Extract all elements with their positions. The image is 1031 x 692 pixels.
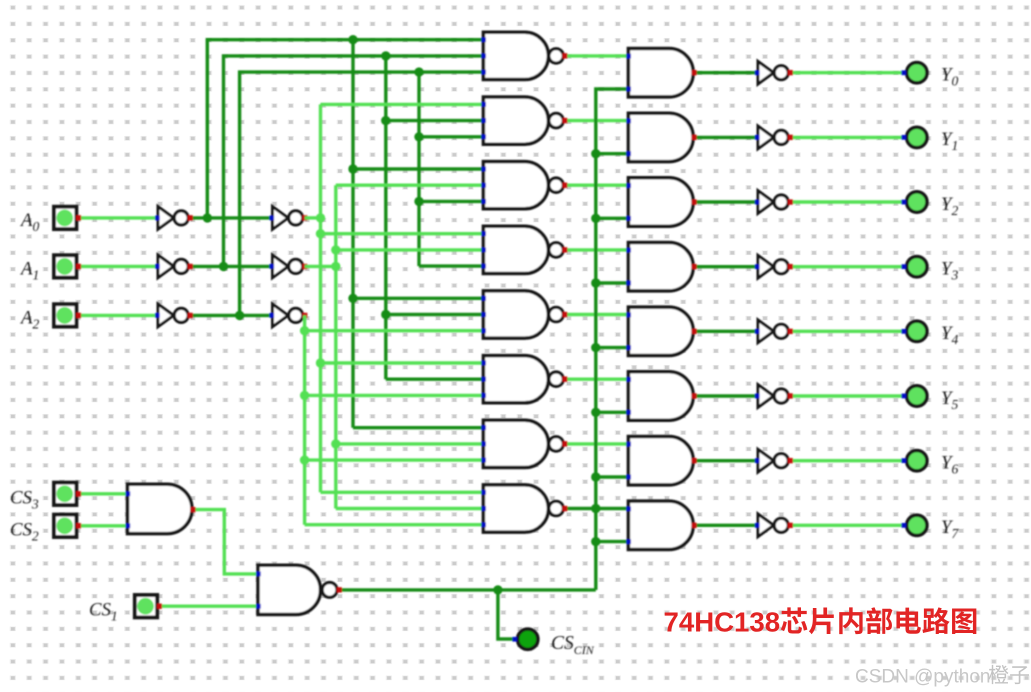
wire /A0 to NAND3 input1	[353, 167, 483, 170]
wire AND2 out to inverter	[694, 136, 758, 139]
wire inverter out to pin Y7	[790, 524, 903, 527]
wire enable to AND4 input2	[596, 281, 629, 284]
output pin Y3	[901, 257, 927, 277]
wire AND4 out to inverter	[694, 265, 758, 268]
wire /A0 inverter1 to inverter2	[190, 216, 272, 219]
wire A1 pin to inverter	[79, 265, 158, 268]
wire enable vertical	[596, 89, 629, 590]
wire enable NAND out	[339, 588, 596, 591]
wire /A2 to NAND2 input3	[419, 135, 483, 138]
wire /A2 to NAND3 input3	[419, 200, 483, 203]
junction enable AND2	[591, 149, 600, 158]
inverter U5 (A1)	[269, 255, 307, 278]
wire inverter out to pin Y6	[790, 459, 903, 462]
junction A0 NAND4	[316, 229, 325, 238]
output pin Y6	[901, 451, 927, 471]
junction /A1 NAND2	[381, 116, 390, 125]
wire enable to AND8 input2	[596, 540, 629, 543]
output pin Y7	[901, 515, 927, 535]
output pin Y4	[901, 321, 927, 341]
junction /A0 NAND5	[348, 294, 357, 303]
wire enable to AND6 input2	[596, 411, 629, 414]
NAND gate G8	[481, 485, 563, 532]
wire A2 to NAND6 input3	[305, 394, 484, 397]
wire net A0 vertical	[319, 104, 322, 492]
watermark	[855, 665, 1029, 688]
junction A2 NAND7	[300, 455, 309, 464]
junction A1 NAND7	[331, 439, 340, 448]
input pin A0	[54, 207, 81, 229]
wire net A2 vertical	[303, 315, 306, 524]
wire CS1 to enable NAND	[159, 605, 257, 608]
wire NAND6 out to AND6	[565, 378, 629, 381]
wire AND6 out to inverter	[694, 394, 758, 397]
input pin CS2	[54, 515, 81, 537]
inverter U12 (Y5)	[755, 385, 793, 408]
junction /A0 drop	[348, 35, 357, 44]
wire /A0 to NAND5 input1	[353, 297, 483, 300]
inverter U1 (A0)	[155, 207, 193, 230]
NAND gate G4	[481, 226, 563, 273]
wire A0 to NAND4 input1	[321, 232, 484, 235]
AND gate G11	[626, 178, 693, 226]
junction enable AND8	[591, 537, 600, 546]
input pin CS1	[135, 595, 162, 617]
wire AND3 out to inverter	[694, 200, 758, 203]
AND gate E1 (CS3 CS2)	[126, 484, 192, 533]
wire enable to AND5 input2	[596, 346, 629, 349]
wire /A0 to NAND7 input1	[353, 426, 483, 429]
wire /A1 to NAND6 input2	[386, 378, 484, 381]
junction enable NAND8 row	[591, 504, 600, 513]
wire AND7 out to inverter	[694, 459, 758, 462]
svg-text:74HC138: 74HC138	[664, 607, 781, 638]
junction CS_CIN tap	[493, 585, 502, 594]
junction enable AND6	[591, 408, 600, 417]
wire NAND4 out to AND4	[565, 248, 629, 251]
junction enable AND7	[591, 472, 600, 481]
output pin CS_CIN	[512, 629, 538, 649]
NAND gate G6	[481, 356, 563, 403]
output pin Y0	[901, 62, 927, 82]
NAND gate E2 (enable)	[256, 565, 337, 614]
junction enable AND4	[591, 278, 600, 287]
NAND gate G5	[481, 291, 563, 338]
junction /A2 NAND2	[414, 132, 423, 141]
wire inverter out to pin Y0	[790, 71, 903, 74]
wire NAND2 out to AND2	[565, 119, 629, 122]
wire A1 to NAND7 input2	[336, 442, 484, 445]
AND gate G12	[626, 243, 693, 291]
wire net /A1 top route	[224, 56, 484, 267]
wire NAND7 out to AND7	[565, 442, 629, 445]
output pin Y1	[901, 127, 927, 147]
wire inverter out to pin Y5	[790, 394, 903, 397]
svg-text:CSDN @python: CSDN @python	[855, 667, 990, 688]
wire AND5 out to inverter	[694, 330, 758, 333]
wire A1 buffered out	[305, 265, 336, 268]
inverter U6 (A2)	[269, 304, 307, 327]
junction /A2 tap	[235, 311, 244, 320]
wire inverter out to pin Y3	[790, 265, 903, 268]
inverter U13 (Y6)	[755, 449, 793, 472]
wire A0 to NAND2 input1	[321, 103, 484, 106]
wire NAND5 out to AND5	[565, 313, 629, 316]
inverter U7 (Y0)	[755, 61, 793, 84]
wire net /A0 top route	[207, 40, 483, 218]
input pin CS3	[54, 483, 81, 505]
wire A0 pin to inverter	[79, 216, 158, 219]
wire net /A1 drop vertical	[384, 56, 387, 379]
NAND gate G7	[481, 420, 563, 467]
wire net /A2 drop vertical	[417, 72, 420, 266]
wire inverter out to pin Y4	[790, 330, 903, 333]
AND gate G14	[626, 372, 693, 420]
wire NAND3 out to AND3	[565, 183, 629, 186]
wire CS3 to AND	[79, 492, 128, 495]
junction /A1 tap	[219, 262, 228, 271]
AND gate G15	[626, 437, 693, 485]
junction /A2 NAND3	[414, 197, 423, 206]
wire NAND1 out to AND1	[565, 54, 629, 57]
wire CS-AND out to enable NAND	[193, 510, 257, 574]
wire /A1 to NAND2 input2	[386, 119, 484, 122]
wire inverter out to pin Y1	[790, 136, 903, 139]
wire A1 to NAND3 input2	[336, 183, 484, 186]
wire AND8 out to inverter	[694, 524, 758, 527]
inverter U10 (Y3)	[755, 255, 793, 278]
wire A2 to NAND8 input3	[305, 523, 484, 526]
wire A2 pin to inverter	[79, 314, 158, 317]
junction A0 NAND6	[316, 358, 325, 367]
NAND gate G3	[481, 162, 563, 209]
wire net /A2 top route	[240, 72, 484, 315]
wire inverter out to pin Y2	[790, 200, 903, 203]
inverter U8 (Y1)	[755, 126, 793, 149]
junction A1 tap	[331, 262, 340, 271]
inverter U11 (Y4)	[755, 320, 793, 343]
input pin A2	[54, 304, 81, 326]
output pin Y5	[901, 386, 927, 406]
AND gate G13	[626, 307, 693, 355]
wire A0 to NAND6 input1	[321, 361, 484, 364]
wire enable to AND3 input2	[596, 217, 629, 220]
wire enable to AND2 input2	[596, 152, 629, 155]
wire NAND8 out to AND8	[565, 507, 629, 510]
wire enable to AND7 input2	[596, 475, 629, 478]
wire A0 buffered out	[305, 216, 321, 219]
inverter U3 (A2)	[155, 304, 193, 327]
inverter U4 (A0)	[269, 207, 307, 230]
input pin A1	[54, 255, 81, 277]
junction A1 NAND4	[331, 245, 340, 254]
title text 74HC138 internal circuit	[664, 607, 977, 638]
wire to CS_CIN pin	[498, 590, 513, 639]
wire A0 to NAND8 input1	[321, 491, 484, 494]
junction /A2 drop	[414, 67, 423, 76]
wire CS2 to AND	[79, 524, 128, 527]
junction A2 NAND6	[300, 391, 309, 400]
wire net /A0 drop vertical	[351, 40, 354, 428]
AND gate G10	[626, 113, 693, 161]
junction enable AND5	[591, 343, 600, 352]
inverter U9 (Y2)	[755, 191, 793, 214]
wire A1 to NAND4 input2	[336, 248, 484, 251]
junction enable AND3	[591, 214, 600, 223]
wire /A2 inverter1 to inverter2	[190, 314, 272, 317]
junction /A1 drop	[381, 51, 390, 60]
wire /A1 inverter1 to inverter2	[190, 265, 272, 268]
wire AND1 out to inverter	[694, 71, 758, 74]
inverter U2 (A1)	[155, 255, 193, 278]
junction A0 tap	[316, 213, 325, 222]
junction /A0 NAND3	[348, 164, 357, 173]
wire A2 to NAND7 input3	[305, 458, 484, 461]
AND gate G16	[626, 501, 693, 549]
inverter U14 (Y7)	[755, 514, 793, 537]
AND gate G9	[626, 49, 693, 97]
wire net A1 vertical	[334, 185, 337, 508]
NAND gate G1	[481, 32, 563, 79]
junction /A0 tap	[203, 213, 212, 222]
wire /A2 to NAND4 input3	[419, 264, 483, 267]
junction /A1 NAND5	[381, 310, 390, 319]
wire /A1 to NAND5 input2	[386, 313, 484, 316]
wire A1 to NAND8 input2	[336, 507, 484, 510]
junction A2 NAND5	[300, 326, 309, 335]
wire A2 to NAND5 input3	[305, 329, 484, 332]
NAND gate G2	[481, 97, 563, 144]
output pin Y2	[901, 192, 927, 212]
